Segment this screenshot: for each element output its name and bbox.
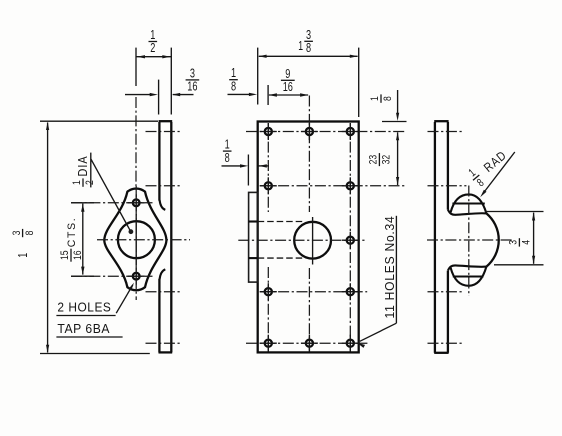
- svg-text:15: 15: [59, 250, 71, 260]
- fillet flange-to-plate top: [160, 200, 166, 210]
- dim 1-3/8 width extension lines: [257, 48, 259, 105]
- flange boss edge-on (protrusion): [249, 192, 258, 282]
- dim 9/16 extension line: [267, 85, 269, 105]
- dim 1-3/8 height dimension line: [47, 123, 49, 353]
- flange face chord top: [452, 202, 484, 204]
- plate large hole: [294, 222, 331, 259]
- fillet flange-to-plate bottom: [160, 269, 166, 279]
- right view horizontal center line: [427, 239, 513, 241]
- row 3 center line: [238, 239, 367, 241]
- svg-text:16: 16: [283, 79, 293, 94]
- svg-text:3: 3: [11, 231, 23, 236]
- svg-text:32: 32: [381, 155, 393, 165]
- hole No.34 #10 row5 col2: [306, 340, 313, 347]
- svg-text:CTS.: CTS.: [66, 217, 78, 248]
- boss hole edge lines: [249, 220, 258, 222]
- label 11 HOLES No.34 (rotated, underlined): [383, 216, 397, 319]
- dim 23/32 dimension line: [397, 132, 399, 185]
- flange bottom fin (right view): [451, 267, 487, 286]
- label 3/4 (rotated): [508, 238, 533, 246]
- row 2 center line across strip (right view): [428, 185, 467, 187]
- dim 1/8 vertical arrow: [397, 90, 399, 115]
- row 5 center line: [246, 342, 369, 344]
- transistor flange outline (left view): [104, 189, 166, 291]
- hole No.34 #6 row3 col3: [347, 237, 354, 244]
- svg-text:8: 8: [306, 40, 311, 55]
- svg-text:1: 1: [369, 96, 381, 101]
- row 4 center line across strip (left view): [146, 291, 181, 293]
- hole No.34 #1 row1 col1: [265, 128, 272, 135]
- svg-text:8: 8: [382, 96, 394, 101]
- dim 1/8 top arrow: [228, 93, 252, 95]
- hole No.34 #8 row4 col3: [347, 288, 354, 295]
- svg-text:3: 3: [508, 240, 520, 245]
- hole No.34 #9 row5 col1: [265, 340, 272, 347]
- hidden hole tangent lines (dashed): [258, 221, 305, 223]
- top tapped hole center line: [71, 202, 153, 204]
- dim 1/2 dimension line: [136, 56, 171, 58]
- svg-text:1: 1: [298, 38, 303, 53]
- label 1 3/8 (rotated): [11, 229, 36, 258]
- top valley curve: [448, 210, 487, 215]
- column 1 center line: [267, 123, 269, 212]
- plate edge-on strip (right view): [434, 122, 436, 353]
- column 3 center line: [349, 123, 351, 350]
- svg-text:16: 16: [72, 250, 84, 260]
- label 15/16 CTS. (rotated): [59, 217, 84, 262]
- label 1/8 right (rotated): [369, 94, 394, 102]
- label 1/2 DIA (rotated) with underline: [71, 155, 96, 187]
- flange top fin (right view): [451, 194, 487, 213]
- flange face chord bottom: [453, 275, 484, 277]
- plate edge-on strip (left view): [158, 122, 160, 201]
- bottom tapped hole center line: [71, 275, 153, 277]
- dim 3/16 arrows: [125, 94, 151, 96]
- svg-text:8: 8: [231, 78, 236, 93]
- flange tapped hole top: [133, 199, 140, 206]
- leader 2 HOLES to bottom tapped hole: [116, 285, 133, 313]
- leader to large hole with dot: [91, 159, 131, 232]
- row 4 center line: [260, 291, 368, 293]
- flange tapped hole bottom: [133, 273, 140, 280]
- large hole vertical center line: [312, 217, 314, 265]
- hole No.34 #11 row5 col3: [347, 340, 354, 347]
- dim 15/16 extension lines: [71, 202, 94, 204]
- column 2 center line: [308, 96, 310, 213]
- hole No.34 #3 row1 col3: [347, 128, 354, 135]
- plate top edge extension (right): [382, 121, 407, 123]
- svg-text:1: 1: [15, 252, 30, 257]
- row 2 center line across strip (left view): [146, 185, 181, 187]
- svg-text:4: 4: [521, 240, 533, 245]
- label 23/32 (rotated): [368, 153, 393, 166]
- dim 3/4 dimension line: [533, 213, 535, 264]
- hole No.34 #4 row2 col1: [265, 182, 272, 189]
- svg-text:16: 16: [187, 79, 197, 94]
- dim 15/16 dimension line: [82, 204, 84, 275]
- dim 9/16 dimension line: [269, 94, 308, 96]
- svg-text:2 HOLES: 2 HOLES: [57, 301, 111, 315]
- row 5 center line across strip (right view): [428, 342, 463, 344]
- svg-text:11 HOLES No.34: 11 HOLES No.34: [383, 216, 397, 319]
- plate front view rectangle: [258, 122, 359, 353]
- svg-text:TAP 6BA: TAP 6BA: [57, 322, 110, 336]
- svg-text:8: 8: [225, 150, 230, 165]
- dim 3/4 extension lines: [485, 211, 544, 213]
- svg-text:23: 23: [368, 155, 380, 165]
- dim 3/16 extension line: [158, 80, 160, 115]
- hole No.34 #2 row1 col2: [306, 128, 313, 135]
- boss large arc: [486, 213, 498, 266]
- row 1 center line: [246, 131, 406, 133]
- row 1 center line across strip (right view): [428, 131, 463, 133]
- hole No.34 #7 row4 col1: [265, 288, 272, 295]
- dim 1/8 boss arrows: [222, 165, 243, 167]
- dim 1-3/8 height extension lines: [40, 120, 158, 122]
- row 4 center line across strip (right view): [428, 291, 463, 293]
- flange horizontal center line: [97, 239, 190, 241]
- leader 11 HOLES to bottom right hole: [360, 323, 397, 341]
- bottom valley curve: [448, 265, 487, 270]
- right view vertical center line: [468, 186, 470, 297]
- leader 1/8 RAD arrow: [483, 152, 515, 194]
- svg-text:8: 8: [24, 231, 36, 236]
- flange vertical center line: [135, 48, 137, 86]
- svg-text:2: 2: [150, 40, 155, 55]
- hole No.34 #5 row2 col3: [347, 182, 354, 189]
- svg-text:DIA: DIA: [76, 155, 90, 176]
- dim 1/8 boss extension line: [247, 155, 249, 186]
- label 1/8 RAD (rotated) with leader: [465, 144, 513, 190]
- row 5 center line across strip (left view): [146, 342, 181, 344]
- row 1 center line across strip (left view): [146, 131, 181, 133]
- row 2 center line: [260, 185, 407, 187]
- flange large hole 1/2 DIA: [118, 221, 155, 258]
- svg-text:1: 1: [71, 180, 83, 185]
- dim 1-3/8 width dimension line: [259, 55, 358, 57]
